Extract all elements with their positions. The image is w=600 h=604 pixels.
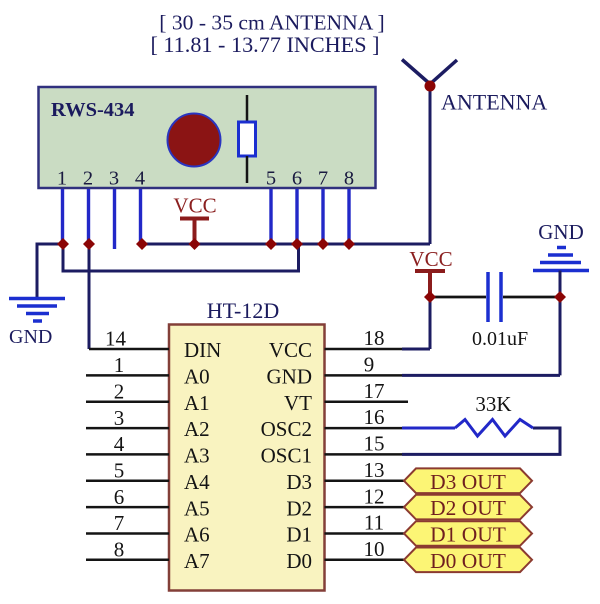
- svg-text:GND: GND: [267, 365, 313, 389]
- svg-text:8: 8: [114, 538, 125, 562]
- svg-text:D2: D2: [286, 496, 312, 520]
- svg-text:D1 OUT: D1 OUT: [430, 523, 506, 547]
- svg-text:A3: A3: [184, 444, 210, 468]
- svg-text:13: 13: [364, 458, 385, 482]
- svg-text:7: 7: [318, 168, 328, 190]
- svg-text:VT: VT: [284, 391, 312, 415]
- svg-text:VCC: VCC: [173, 194, 216, 218]
- svg-text:11: 11: [364, 511, 384, 535]
- svg-text:15: 15: [364, 432, 385, 456]
- svg-text:D3 OUT: D3 OUT: [430, 470, 506, 494]
- svg-text:A6: A6: [184, 523, 210, 547]
- svg-text:DIN: DIN: [184, 338, 221, 362]
- svg-text:6: 6: [114, 485, 125, 509]
- svg-text:5: 5: [114, 458, 125, 482]
- svg-text:1: 1: [114, 353, 125, 377]
- svg-text:[ 30 - 35 cm ANTENNA ]: [ 30 - 35 cm ANTENNA ]: [159, 11, 385, 35]
- svg-text:10: 10: [364, 537, 385, 561]
- svg-text:17: 17: [364, 379, 385, 403]
- svg-text:D2 OUT: D2 OUT: [430, 496, 506, 520]
- svg-text:RWS-434: RWS-434: [51, 99, 135, 121]
- svg-text:D1: D1: [286, 523, 312, 547]
- svg-text:ANTENNA: ANTENNA: [441, 90, 547, 115]
- svg-text:0.01uF: 0.01uF: [472, 328, 528, 350]
- svg-text:2: 2: [114, 379, 125, 403]
- svg-text:GND: GND: [9, 326, 52, 348]
- svg-text:OSC2: OSC2: [261, 417, 312, 441]
- svg-text:A1: A1: [184, 391, 210, 415]
- svg-text:D0: D0: [286, 549, 312, 573]
- svg-text:VCC: VCC: [409, 247, 452, 271]
- svg-text:A2: A2: [184, 417, 210, 441]
- svg-text:A4: A4: [184, 470, 210, 494]
- svg-text:1: 1: [57, 168, 67, 190]
- svg-text:3: 3: [109, 168, 119, 190]
- svg-text:3: 3: [114, 406, 125, 430]
- svg-text:A0: A0: [184, 365, 210, 389]
- svg-text:A7: A7: [184, 549, 210, 573]
- svg-text:A5: A5: [184, 496, 210, 520]
- svg-text:7: 7: [114, 511, 125, 535]
- svg-text:2: 2: [83, 168, 93, 190]
- svg-text:D3: D3: [286, 470, 312, 494]
- svg-text:18: 18: [364, 326, 385, 350]
- svg-text:33K: 33K: [475, 392, 511, 416]
- svg-text:VCC: VCC: [269, 338, 312, 362]
- svg-text:4: 4: [135, 168, 145, 190]
- svg-text:6: 6: [292, 168, 302, 190]
- svg-text:8: 8: [344, 168, 354, 190]
- svg-text:D0 OUT: D0 OUT: [430, 549, 506, 573]
- svg-text:14: 14: [105, 327, 127, 351]
- svg-text:[ 11.81 - 13.77 INCHES ]: [ 11.81 - 13.77 INCHES ]: [150, 32, 379, 57]
- svg-text:5: 5: [266, 168, 276, 190]
- svg-text:OSC1: OSC1: [261, 444, 312, 468]
- svg-text:12: 12: [364, 484, 385, 508]
- svg-text:GND: GND: [538, 220, 584, 244]
- svg-text:4: 4: [114, 432, 125, 456]
- svg-text:9: 9: [364, 353, 375, 377]
- svg-text:16: 16: [364, 405, 385, 429]
- svg-text:HT-12D: HT-12D: [207, 298, 280, 323]
